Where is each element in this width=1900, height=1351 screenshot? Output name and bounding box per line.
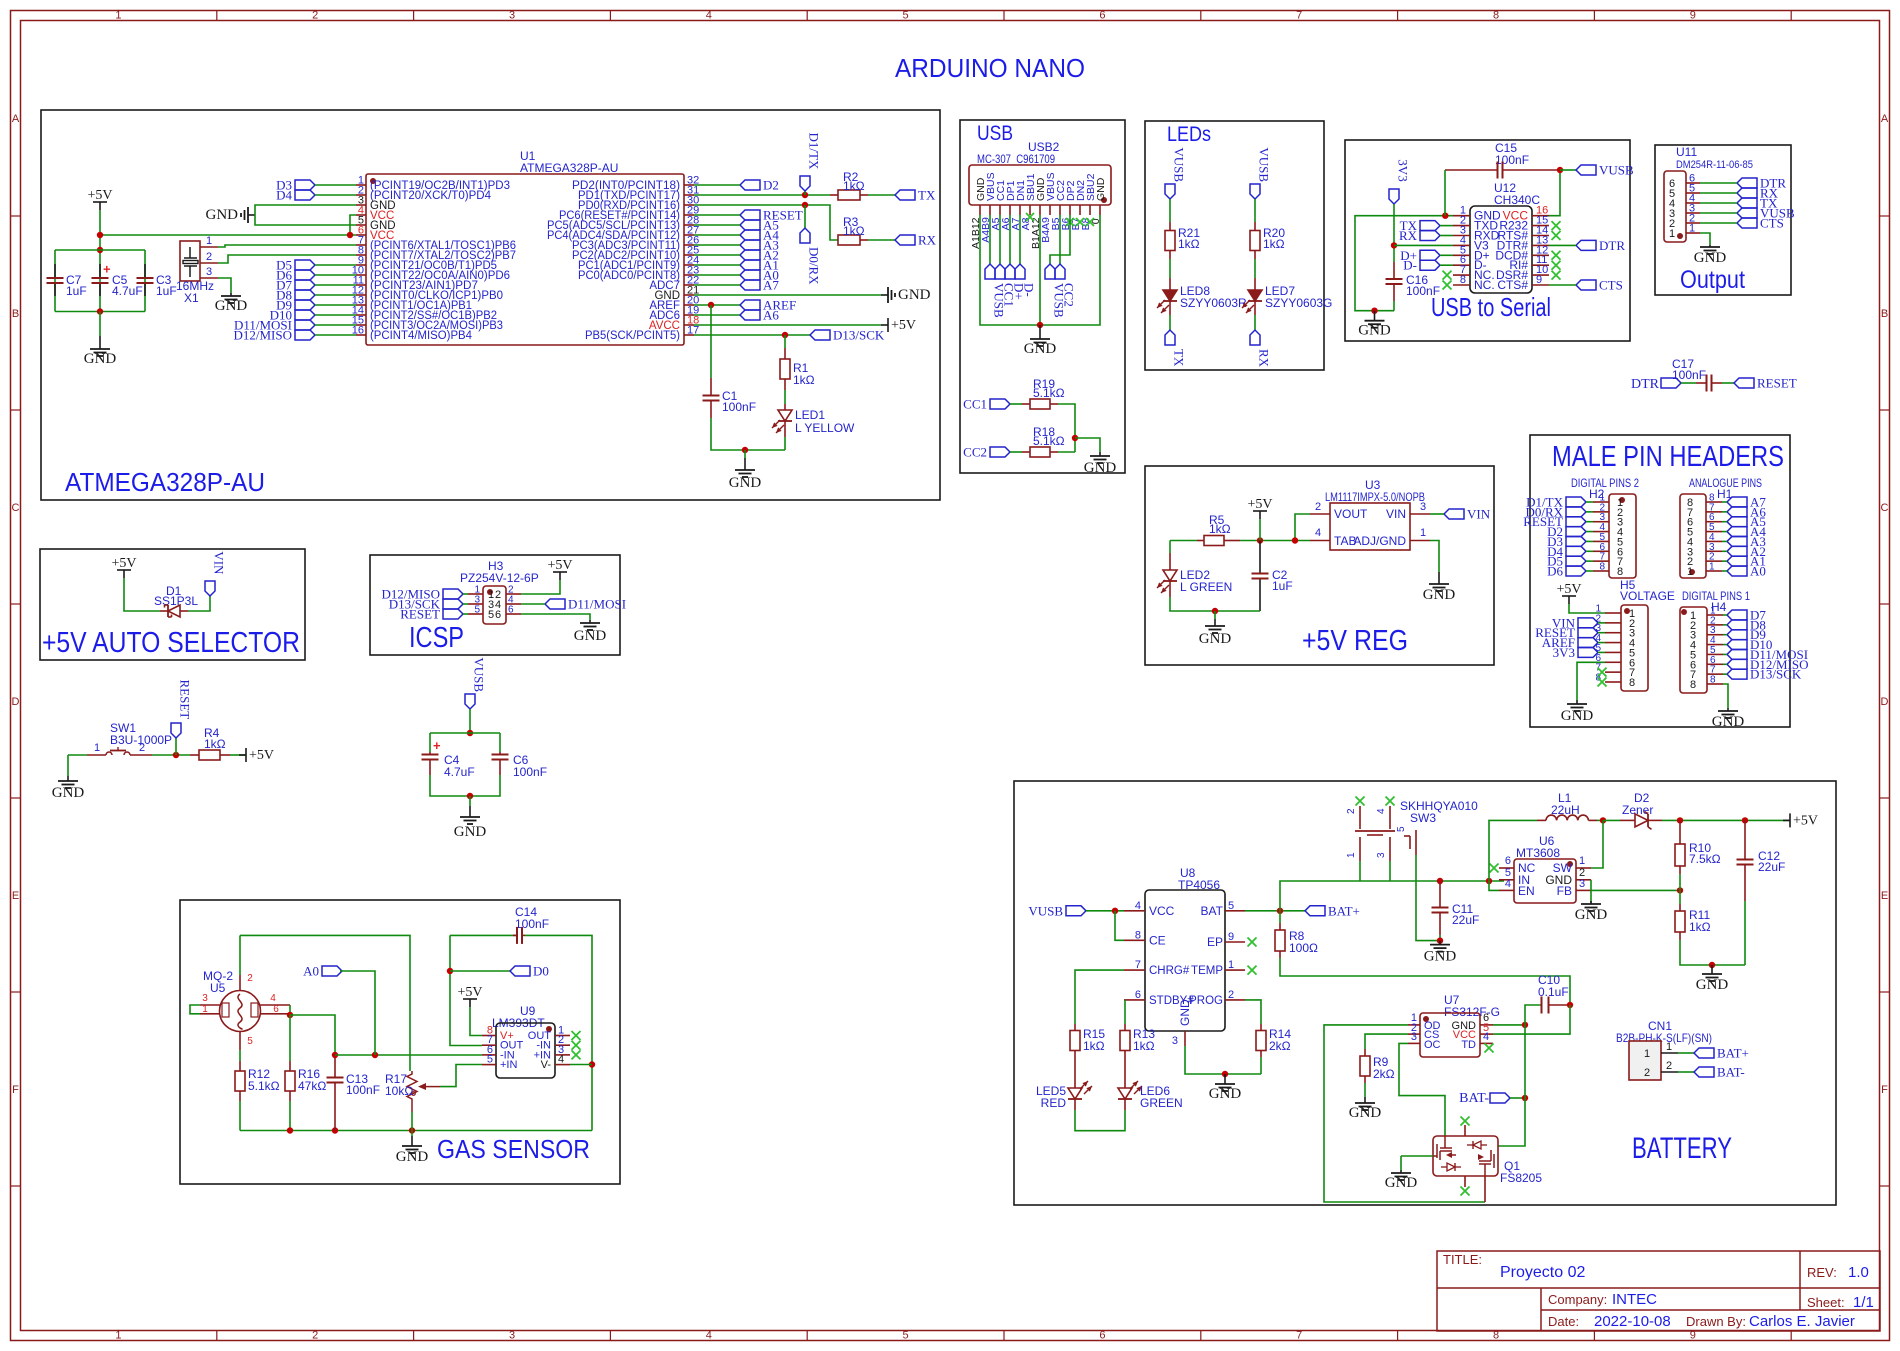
junction L1/EN column xyxy=(1486,878,1492,884)
wire STDBY# to R13 xyxy=(1124,1000,1126,1024)
U9 pin 4 V- xyxy=(555,1064,570,1066)
LED6 GREEN xyxy=(1124,1057,1126,1088)
net flag RX xyxy=(895,235,915,245)
net flag A7 xyxy=(740,280,760,290)
capacitor C16 100nF xyxy=(1393,262,1395,279)
wire USB2 to VUSB flag xyxy=(1050,215,1060,264)
H3 pin 4 xyxy=(506,603,521,605)
wire USB2 to CC1 flag xyxy=(999,215,1001,264)
svg-text:8: 8 xyxy=(1617,566,1623,578)
X1 pin 3 xyxy=(200,277,218,279)
svg-text:TEMP: TEMP xyxy=(1191,965,1223,977)
net flag VUSB down xyxy=(1045,264,1055,279)
junction D1/TX tap xyxy=(802,192,808,198)
capacitor C4 4.7uF polarized xyxy=(429,752,431,755)
U1 pin 6 VCC xyxy=(356,234,366,236)
svg-text:5: 5 xyxy=(903,10,909,22)
svg-text:ICSP: ICSP xyxy=(409,622,464,654)
svg-text:C: C xyxy=(1881,502,1889,514)
svg-text:7: 7 xyxy=(1296,1330,1302,1342)
svg-text:2: 2 xyxy=(247,973,253,984)
wire VIN pin to flag xyxy=(1430,513,1444,515)
no-connect X on A8 xyxy=(1026,213,1034,221)
resistor R1 1k xyxy=(784,348,786,359)
wire U11 to DTR xyxy=(1700,182,1737,184)
net flag A5 xyxy=(1727,517,1747,527)
svg-text:RESET: RESET xyxy=(400,607,440,622)
U1 pin 25 PC2(ADC2/PCINT10) xyxy=(684,254,694,256)
svg-text:1: 1 xyxy=(115,10,121,22)
svg-text:CC2: CC2 xyxy=(963,445,987,460)
net flag VUSB down xyxy=(985,264,995,279)
svg-text:1: 1 xyxy=(202,1004,208,1015)
wire R1 to LED1 xyxy=(784,390,786,404)
H5 pin 8 xyxy=(1605,681,1621,683)
svg-text:A: A xyxy=(1881,113,1889,125)
svg-text:BAT: BAT xyxy=(1201,904,1224,918)
svg-text:+5V: +5V xyxy=(891,318,916,333)
net flag CC2 xyxy=(990,447,1010,457)
wire H1 to flag xyxy=(1722,511,1727,513)
svg-text:2: 2 xyxy=(206,251,212,263)
wire U1 pin21 to GND flag xyxy=(694,294,881,296)
USB2 pin B6 DP2 xyxy=(1069,205,1071,215)
svg-text:GND: GND xyxy=(84,351,117,367)
svg-text:1uF: 1uF xyxy=(1272,579,1293,593)
wire H1 to flag xyxy=(1722,501,1727,503)
H1 pin 1 xyxy=(1706,570,1722,572)
wire C10 to VCC pin xyxy=(1493,1005,1570,1034)
net flag 3V3 vertical xyxy=(1389,189,1399,204)
svg-text:E: E xyxy=(12,890,19,902)
wire U1 pin30 RX net xyxy=(694,205,838,240)
wire CS to R9 xyxy=(1365,1034,1408,1049)
H3 pin 5 xyxy=(468,613,483,615)
wire rail to ground xyxy=(744,450,746,458)
wire EN loop xyxy=(1489,881,1499,890)
wire D5 to U1 xyxy=(315,264,356,266)
svg-text:2: 2 xyxy=(1228,989,1234,1001)
wire U1 to A1 xyxy=(694,264,740,266)
junction U8 gnd xyxy=(1222,1071,1228,1077)
U1 pin 24 PC1(ADC1/PCINT9) xyxy=(684,264,694,266)
net flag D13/SCK xyxy=(810,330,830,340)
net flag RESET vertical xyxy=(171,723,181,738)
svg-text:D: D xyxy=(1881,696,1889,708)
wire flag to H5 xyxy=(1598,632,1605,634)
ground for ICSP xyxy=(589,620,591,623)
wire flag to H2 xyxy=(1586,570,1593,572)
H3 pin 3 xyxy=(468,603,483,605)
wire C12 to gnd rail xyxy=(1744,901,1746,965)
no-connect X U12 right xyxy=(1552,221,1561,230)
wire U11 pin1 to gnd xyxy=(1700,233,1710,245)
wire TX to TXD xyxy=(1440,225,1453,227)
wire SW3 pin3 down xyxy=(1389,861,1391,881)
svg-text:GND: GND xyxy=(1424,949,1457,965)
wire H4 to flag xyxy=(1723,663,1727,665)
wire R21 to LED8 xyxy=(1169,259,1171,278)
net flag CC2 down xyxy=(1055,264,1065,279)
wire R4 to +5V xyxy=(230,754,246,756)
svg-text:CHRG#: CHRG# xyxy=(1149,965,1190,977)
svg-text:5: 5 xyxy=(903,1330,909,1342)
wire gnd flag to pin3 xyxy=(255,205,356,215)
SW3 pin 1 xyxy=(1359,837,1361,861)
U5 pin 1 xyxy=(200,1013,220,1015)
U11 pin 1 xyxy=(1686,232,1700,234)
USB2 pin A6 DP1 xyxy=(1009,205,1011,215)
svg-text:Date:: Date: xyxy=(1548,1314,1579,1329)
net flag D12/MISO xyxy=(1727,659,1747,669)
net flag D2 xyxy=(1566,527,1586,537)
resistor R2 1k xyxy=(830,194,838,196)
net flag D1/TX xyxy=(1566,497,1586,507)
wire CTS# to CTS xyxy=(1549,284,1576,286)
net flag A5 xyxy=(740,220,760,230)
svg-text:VIN: VIN xyxy=(212,551,227,575)
bottom rail xyxy=(240,1130,592,1132)
svg-text:100nF: 100nF xyxy=(513,765,547,779)
net flag A3 xyxy=(740,240,760,250)
net flag RESET xyxy=(1734,378,1754,388)
wire X1 pin1 to U1 pin7 xyxy=(218,245,356,247)
U6 pin 2 GND xyxy=(1576,879,1591,881)
net flag D5 xyxy=(295,260,315,270)
svg-text:OC: OC xyxy=(1424,1039,1441,1051)
USB2 pin A8 SBU1 xyxy=(1029,205,1031,215)
LED2 L GREEN xyxy=(1169,541,1171,554)
net flag CTS xyxy=(1737,218,1757,228)
svg-text:1kΩ: 1kΩ xyxy=(843,179,865,193)
svg-text:D13/SCK: D13/SCK xyxy=(833,328,885,343)
svg-text:+5V REG: +5V REG xyxy=(1302,625,1408,657)
U9 pin 5 +IN xyxy=(482,1064,496,1066)
wire wiper to +IN xyxy=(440,1065,482,1087)
wire U11 to RX xyxy=(1700,192,1737,194)
svg-text:1: 1 xyxy=(206,235,212,247)
net flag CC1 xyxy=(990,399,1010,409)
net flag A4 xyxy=(740,230,760,240)
H4 pin 1 xyxy=(1707,614,1723,616)
svg-text:4: 4 xyxy=(558,1054,564,1066)
svg-text:100nF: 100nF xyxy=(722,400,756,414)
svg-text:5.1kΩ: 5.1kΩ xyxy=(248,1079,280,1093)
ground below cap bank xyxy=(99,336,101,349)
svg-text:GND: GND xyxy=(1095,177,1107,201)
resistor R20 1k xyxy=(1254,222,1256,231)
U1 pin 27 PC4(ADC4/SDA/PCINT12) xyxy=(684,234,694,236)
junction C13 rail xyxy=(332,1127,338,1133)
U1 pin 4 VCC xyxy=(356,214,366,216)
net flag DTR xyxy=(1737,178,1757,188)
svg-text:L GREEN: L GREEN xyxy=(1180,580,1232,594)
section box Output xyxy=(1655,145,1791,295)
H5 pin 3 xyxy=(1605,632,1621,634)
no-connect X U6 pin6 xyxy=(1490,864,1499,873)
junction gnd rail xyxy=(1709,962,1715,968)
svg-text:GND: GND xyxy=(1358,323,1391,339)
U6 pin 4 EN xyxy=(1499,889,1514,891)
net flag A6 xyxy=(1727,507,1747,517)
svg-text:LED1: LED1 xyxy=(795,408,825,422)
svg-text:100nF: 100nF xyxy=(515,917,549,931)
wire DTR# to DTR xyxy=(1549,244,1576,246)
svg-text:+IN: +IN xyxy=(500,1059,517,1071)
Q1 nc pin top xyxy=(1464,1125,1466,1136)
net flag D1/TX vertical xyxy=(800,176,810,191)
svg-text:2: 2 xyxy=(1666,1060,1672,1072)
svg-text:+5V: +5V xyxy=(1793,813,1818,828)
net flag D11/MOSI xyxy=(1727,649,1747,659)
wire H1 to flag xyxy=(1722,531,1727,533)
Q1 source pin bottom xyxy=(1484,1176,1486,1202)
svg-text:TITLE:: TITLE: xyxy=(1443,1252,1482,1267)
U9 pin 8 V+ xyxy=(482,1035,496,1037)
svg-text:6: 6 xyxy=(1135,989,1141,1001)
ground left of Q1 xyxy=(1400,1170,1402,1173)
svg-text:+5V: +5V xyxy=(87,188,112,203)
wire 3V3 down xyxy=(1393,204,1395,262)
wire BAT- to column xyxy=(1510,1097,1525,1099)
wire D6 to U1 xyxy=(315,274,356,276)
H5 pin 4 xyxy=(1605,642,1621,644)
wire R2 to TX flag xyxy=(868,194,895,196)
H1 pin 2 xyxy=(1706,560,1722,562)
CN1 pin 1 xyxy=(1661,1052,1678,1054)
svg-text:1: 1 xyxy=(1666,1041,1672,1053)
junction cap rail top xyxy=(97,247,103,253)
svg-text:LM1117IMPX-5.0/NOPB: LM1117IMPX-5.0/NOPB xyxy=(1325,490,1425,504)
wire CN1 pin1 to BAT+ xyxy=(1678,1052,1694,1054)
svg-text:3: 3 xyxy=(509,1330,515,1342)
U6 pin 6 NC xyxy=(1499,867,1514,869)
svg-text:1: 1 xyxy=(1669,228,1675,240)
U9 pin 3 +IN xyxy=(555,1054,570,1056)
wire VOUT loop to TAB xyxy=(1295,514,1310,541)
svg-text:B: B xyxy=(1881,308,1888,320)
svg-text:1: 1 xyxy=(1579,855,1585,867)
svg-text:D0: D0 xyxy=(533,964,549,979)
svg-text:SZYY0603G: SZYY0603G xyxy=(1265,296,1332,310)
wire FB net xyxy=(1591,889,1680,891)
wire U1 pin20 AREF xyxy=(694,304,740,306)
net flag 3V3 xyxy=(1578,647,1598,657)
svg-text:VUSB: VUSB xyxy=(1172,147,1187,182)
U5 pin 4 xyxy=(260,1004,290,1006)
section box ICSP xyxy=(370,555,620,655)
resistor R9 2k xyxy=(1364,1049,1366,1056)
Q1 nc pin bottom xyxy=(1464,1176,1466,1187)
junction C2/+5V xyxy=(1257,537,1263,543)
USB2 pin B8 SBU2 xyxy=(1089,205,1091,215)
junction C11 gnd xyxy=(1437,937,1443,943)
resistor R16 47k xyxy=(289,1015,291,1061)
svg-text:1kΩ: 1kΩ xyxy=(1689,920,1711,934)
U12 pin 5 D+ xyxy=(1453,254,1470,256)
wire C16 to gnd rail xyxy=(1393,301,1395,311)
svg-text:6: 6 xyxy=(508,605,514,616)
net flag D7 xyxy=(1727,610,1747,620)
svg-text:DTR: DTR xyxy=(1599,238,1625,253)
svg-text:1.0: 1.0 xyxy=(1848,1264,1869,1281)
H4 pin 6 xyxy=(1707,663,1723,665)
wire D4 to U1 pin2 xyxy=(315,194,356,196)
svg-text:1: 1 xyxy=(1709,561,1715,572)
net flag A1 xyxy=(740,260,760,270)
svg-text:GND: GND xyxy=(1696,977,1729,993)
USB2 pin B7 DN2 xyxy=(1079,205,1081,215)
svg-text:0.1uF: 0.1uF xyxy=(1538,985,1569,999)
wire RESET flag stem xyxy=(175,738,177,755)
svg-text:2: 2 xyxy=(312,10,318,22)
no-connect X U9 pin2 xyxy=(572,1041,581,1050)
svg-text:CE: CE xyxy=(1149,933,1166,947)
wire C11 to gnd xyxy=(1439,935,1441,941)
wire U8 gnd xyxy=(1185,1046,1261,1074)
svg-text:GND: GND xyxy=(1349,1105,1382,1121)
junction VUSB xyxy=(1557,167,1563,173)
wire V- to right column xyxy=(570,1064,592,1066)
svg-text:RESET: RESET xyxy=(1757,376,1797,391)
CN1 pin 2 xyxy=(1661,1071,1678,1073)
svg-text:VOLTAGE: VOLTAGE xyxy=(1620,589,1675,603)
junction VUSB rail xyxy=(467,730,473,736)
net flag BAT+ right xyxy=(1694,1048,1714,1058)
svg-text:A: A xyxy=(12,113,20,125)
svg-text:D: D xyxy=(12,696,20,708)
junction R16 rail xyxy=(287,1127,293,1133)
wire +5V to V+ xyxy=(470,1007,482,1036)
ground below U11 xyxy=(1709,245,1711,247)
net flag VIN vertical xyxy=(205,581,215,596)
svg-text:FS312F-G: FS312F-G xyxy=(1444,1005,1500,1019)
svg-text:MALE PIN HEADERS: MALE PIN HEADERS xyxy=(1552,441,1784,473)
SW3 body xyxy=(1355,830,1395,832)
net flag VUSB column 2 xyxy=(1250,184,1260,199)
net flag D+ down xyxy=(1005,264,1015,279)
H1 pin 6 xyxy=(1706,521,1722,523)
svg-text:USB to Serial: USB to Serial xyxy=(1431,292,1551,322)
SW3 pin 3 xyxy=(1389,837,1391,861)
svg-text:VUSB: VUSB xyxy=(1257,147,1272,182)
svg-text:GND: GND xyxy=(454,824,487,840)
svg-text:1kΩ: 1kΩ xyxy=(1133,1039,1155,1053)
net flag VUSB xyxy=(1066,906,1086,916)
svg-text:D11/MOSI: D11/MOSI xyxy=(568,597,626,612)
U8 pin 9 EP xyxy=(1225,941,1245,943)
no-connect X U12 right xyxy=(1552,261,1561,270)
svg-text:X1: X1 xyxy=(184,291,199,305)
svg-text:MT3608: MT3608 xyxy=(1516,846,1560,860)
svg-text:4: 4 xyxy=(1376,808,1387,814)
net flag D2 xyxy=(740,180,760,190)
svg-text:100nF: 100nF xyxy=(1495,153,1529,167)
svg-text:BAT-: BAT- xyxy=(1459,1091,1489,1106)
section box +5V AUTO SELECTOR xyxy=(40,549,305,660)
section box BATTERY xyxy=(1014,781,1836,1205)
svg-text:3: 3 xyxy=(1172,1035,1178,1047)
net flag D0/RX vertical xyxy=(800,228,810,243)
svg-text:22uH: 22uH xyxy=(1551,803,1580,817)
wire OD to left loop xyxy=(1324,1025,1485,1202)
net flag D6 xyxy=(295,270,315,280)
net flag D10 xyxy=(295,310,315,320)
wire H4 to flag xyxy=(1723,673,1727,675)
U11 pin 5 xyxy=(1686,192,1700,194)
junction BAT+/R8 xyxy=(1277,908,1283,914)
svg-text:GND: GND xyxy=(1209,1086,1242,1102)
U1 pin 26 PC3(ADC3/PCINT11) xyxy=(684,244,694,246)
svg-text:+5V AUTO SELECTOR: +5V AUTO SELECTOR xyxy=(42,627,300,659)
ground below C11 xyxy=(1439,941,1441,945)
junction V- tap xyxy=(589,1061,595,1067)
wire +5V to H3 pin2 xyxy=(521,580,560,594)
svg-text:VOUT: VOUT xyxy=(1334,507,1368,521)
svg-text:22uF: 22uF xyxy=(1758,860,1785,874)
no-connect X Q1 top xyxy=(1461,1117,1470,1126)
svg-text:47kΩ: 47kΩ xyxy=(298,1079,326,1093)
U12 pin 7 NC. xyxy=(1453,274,1470,276)
wire X1 pin3 to ground xyxy=(218,278,231,293)
H1 pin 3 xyxy=(1706,550,1722,552)
junction D0 tap xyxy=(447,968,453,974)
wire up to C10 xyxy=(1525,1005,1541,1025)
title block xyxy=(1437,1251,1880,1331)
junction BAT- xyxy=(1522,1095,1528,1101)
wire GND pin to C10 node xyxy=(1493,1024,1525,1026)
junction C10 right xyxy=(1567,1002,1573,1008)
U11 pin 3 xyxy=(1686,212,1700,214)
wire SW3 pin5 to gnd xyxy=(1416,855,1440,941)
junction R17/gnd rail xyxy=(409,1127,415,1133)
wire U1 pin17 to D13/SCK xyxy=(694,334,810,336)
svg-text:RESET: RESET xyxy=(178,680,193,720)
H4 pin 8 xyxy=(1707,683,1723,685)
svg-text:6: 6 xyxy=(1099,10,1105,22)
wire C15 left down to U12 pin1 xyxy=(1444,170,1446,216)
no-connect X H5 pin7 xyxy=(1598,668,1607,677)
USB2 pin A7 DN1 xyxy=(1019,205,1021,215)
wire main 5V rail xyxy=(1240,540,1310,542)
ground below ADJ xyxy=(1438,572,1440,584)
wire H4 pin8 to ground xyxy=(1723,684,1728,708)
wire +5V rail to U1 pin6/pin4 xyxy=(100,234,356,236)
svg-text:VCC: VCC xyxy=(1149,904,1175,918)
wire U11 to CTS xyxy=(1700,222,1737,224)
svg-text:CC2: CC2 xyxy=(1062,283,1077,307)
wire Q1 left to ground xyxy=(1401,1155,1433,1157)
U1 pin 12 (PCINT0/CLKO/ICP1)PB0 xyxy=(356,294,366,296)
net flag A2 xyxy=(1727,546,1747,556)
svg-text:Company:: Company: xyxy=(1548,1292,1607,1307)
svg-text:6: 6 xyxy=(1505,855,1511,867)
junction A0 tap xyxy=(372,1052,378,1058)
ground below R11/C12 xyxy=(1711,965,1713,974)
svg-text:3: 3 xyxy=(509,10,515,22)
svg-text:1/1: 1/1 xyxy=(1853,1294,1874,1311)
USB2 pin A4B9 VBUS xyxy=(989,205,991,215)
wire VUSB to R20 xyxy=(1254,199,1256,222)
U12 pin 10 DSR# xyxy=(1532,274,1549,276)
wire flag to H3 xyxy=(463,613,468,615)
svg-text:1kΩ: 1kΩ xyxy=(793,373,815,387)
wire H1 to flag xyxy=(1722,560,1727,562)
svg-text:3: 3 xyxy=(1420,501,1426,513)
power flag +5V right xyxy=(887,318,889,332)
resistor R13 1k xyxy=(1124,1024,1126,1031)
crystal X1 16MHz xyxy=(180,241,200,281)
